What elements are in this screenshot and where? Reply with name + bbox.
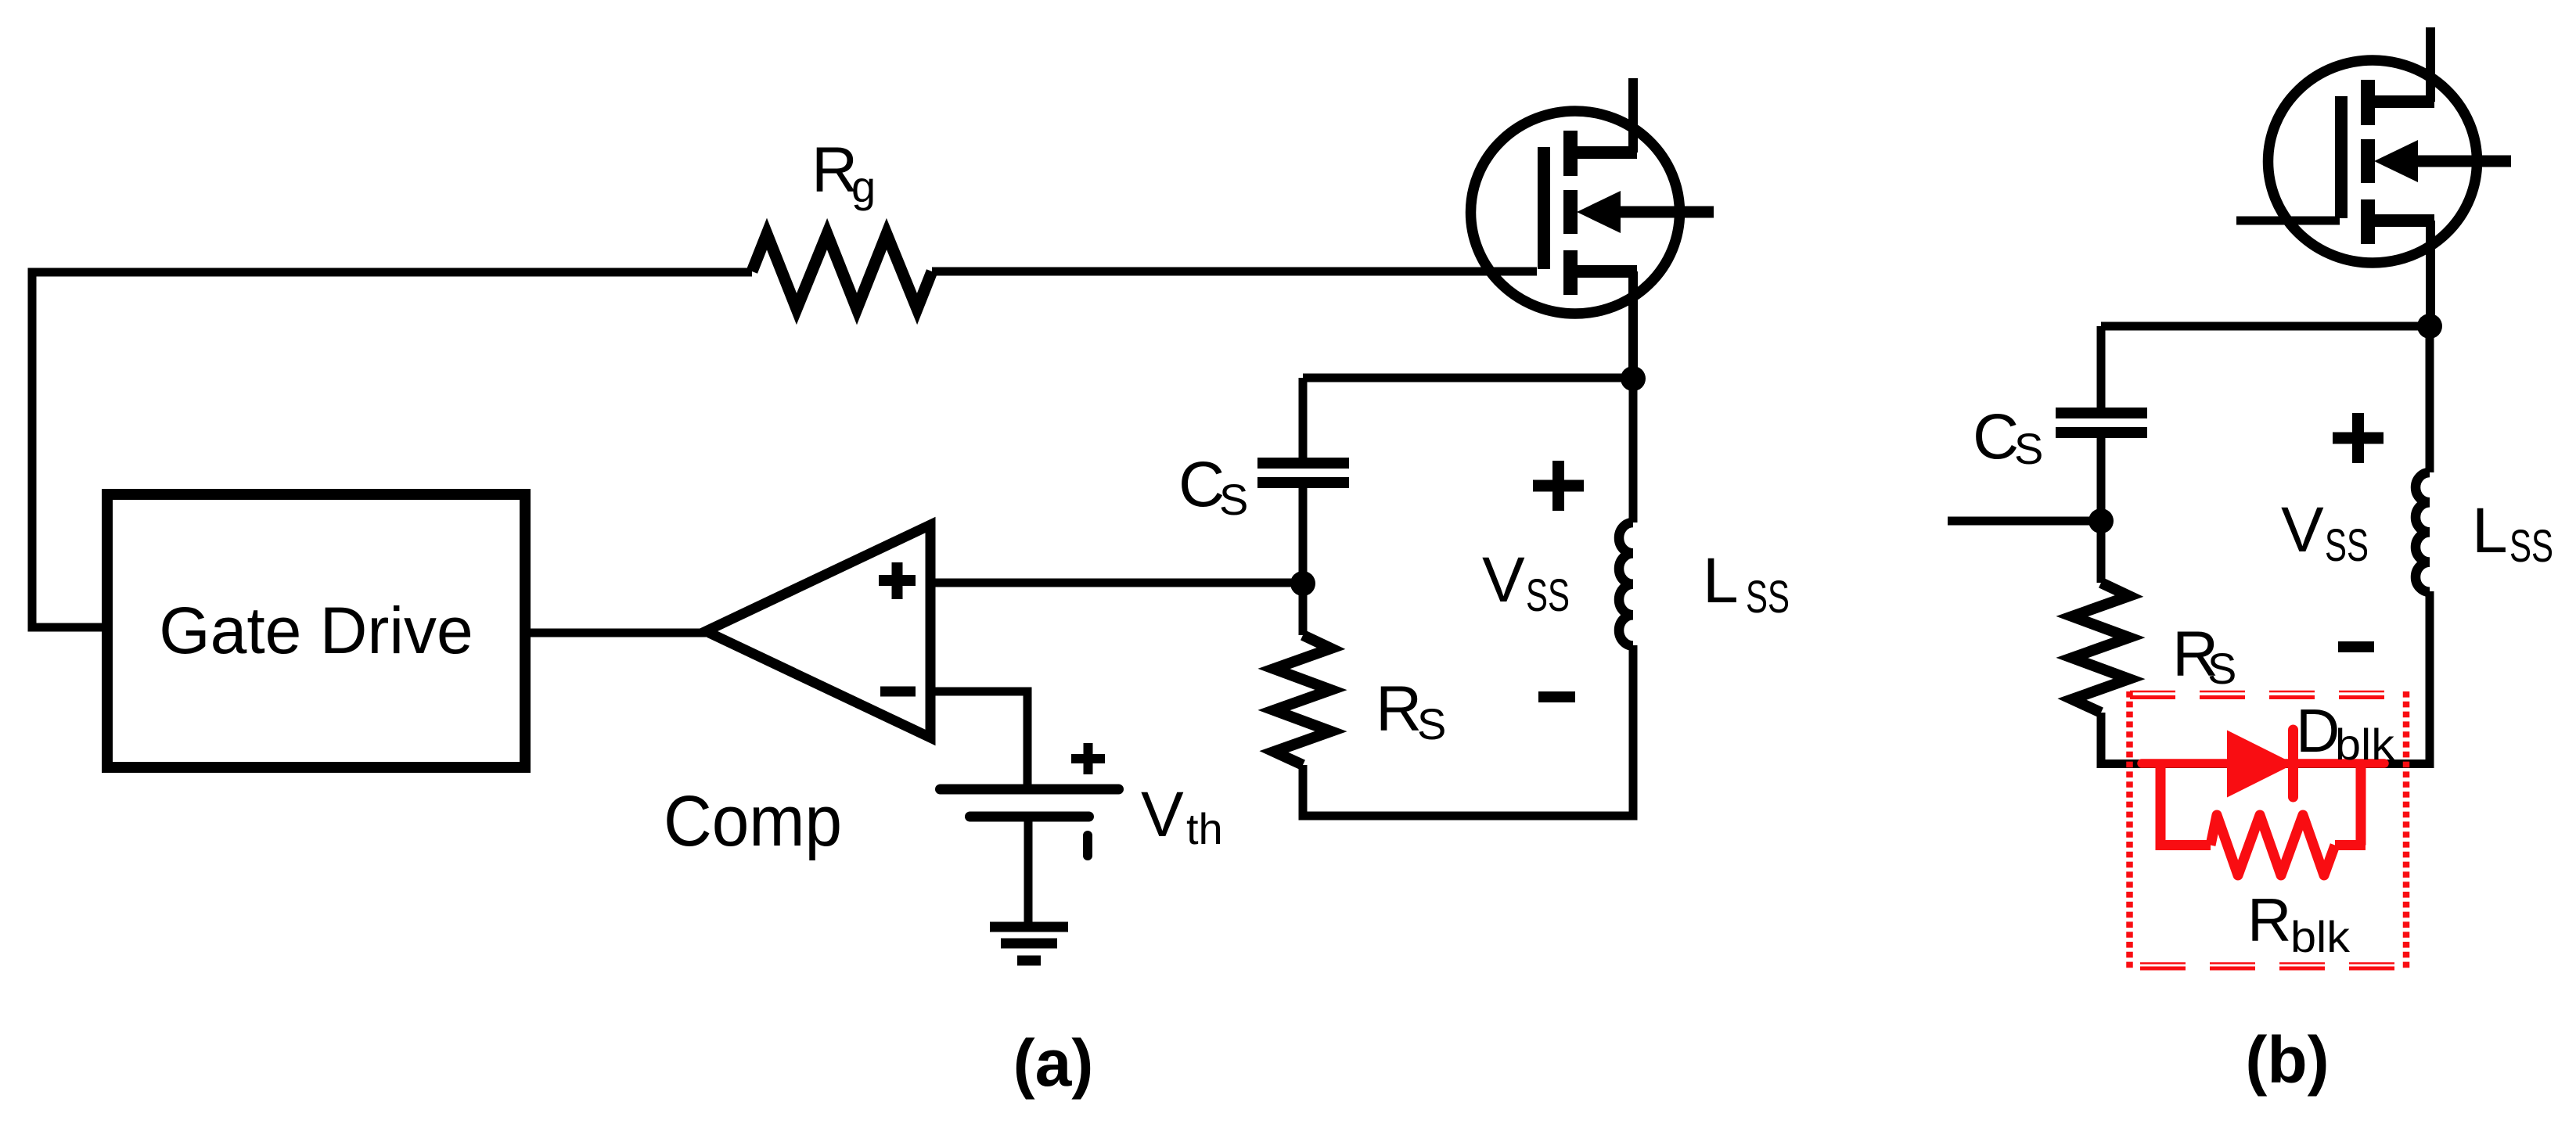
svg-text:blk: blk xyxy=(2335,720,2395,769)
svg-text:g: g xyxy=(851,162,876,211)
svg-text:V: V xyxy=(2281,494,2324,566)
svg-text:blk: blk xyxy=(2290,912,2351,961)
svg-text:V: V xyxy=(1141,779,1184,850)
svg-text:th: th xyxy=(1186,804,1223,853)
svg-text:S: S xyxy=(1219,475,1248,524)
svg-text:C: C xyxy=(1178,449,1225,520)
svg-text:SS: SS xyxy=(2509,521,2553,572)
svg-text:S: S xyxy=(2014,424,2043,473)
svg-text:SS: SS xyxy=(1526,570,1570,621)
svg-text:V: V xyxy=(1482,544,1525,616)
svg-text:SS: SS xyxy=(1746,572,1790,623)
svg-text:R: R xyxy=(1376,673,1422,745)
svg-text:Comp: Comp xyxy=(664,781,842,861)
svg-text:(b): (b) xyxy=(2245,1023,2329,1097)
svg-text:(a): (a) xyxy=(1013,1026,1094,1100)
svg-text:R: R xyxy=(2247,885,2291,954)
svg-text:L: L xyxy=(1703,545,1739,616)
svg-text:S: S xyxy=(2207,644,2236,693)
svg-text:L: L xyxy=(2472,495,2508,566)
svg-text:S: S xyxy=(1417,699,1446,749)
svg-text:D: D xyxy=(2296,696,2340,765)
svg-text:SS: SS xyxy=(2325,520,2369,571)
svg-text:C: C xyxy=(1973,401,2019,472)
svg-text:Gate Drive: Gate Drive xyxy=(159,594,473,667)
